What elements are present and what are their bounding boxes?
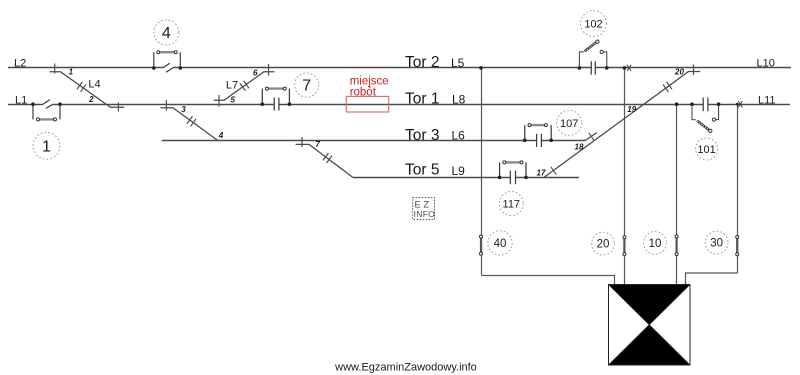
svg-text:20: 20 xyxy=(597,239,610,251)
svg-text:L2: L2 xyxy=(14,58,26,70)
svg-text:L6: L6 xyxy=(452,129,466,143)
svg-text:L1: L1 xyxy=(15,95,27,107)
svg-text:Tor 3: Tor 3 xyxy=(405,127,439,144)
svg-text:10: 10 xyxy=(649,238,662,250)
svg-text:30: 30 xyxy=(710,238,723,250)
svg-text:4: 4 xyxy=(218,131,224,140)
svg-text:3: 3 xyxy=(181,105,186,114)
svg-text:20: 20 xyxy=(674,67,684,76)
svg-text:Tor 2: Tor 2 xyxy=(405,54,439,71)
svg-text:102: 102 xyxy=(584,19,602,31)
svg-text:18: 18 xyxy=(575,143,584,152)
svg-text:L5: L5 xyxy=(451,56,465,70)
svg-text:40: 40 xyxy=(494,238,507,250)
svg-text:101: 101 xyxy=(697,144,715,156)
svg-text:L9: L9 xyxy=(452,164,466,178)
svg-text:17: 17 xyxy=(537,169,546,178)
svg-text:117: 117 xyxy=(503,199,521,211)
svg-text:www.EgzaminZawodowy.info: www.EgzaminZawodowy.info xyxy=(334,362,477,374)
svg-text:7: 7 xyxy=(302,78,311,95)
svg-text:19: 19 xyxy=(627,105,636,114)
svg-text:Tor 5: Tor 5 xyxy=(405,162,439,179)
svg-text:L11: L11 xyxy=(758,95,776,107)
svg-text:miejsce: miejsce xyxy=(350,75,389,87)
svg-text:L8: L8 xyxy=(452,93,466,107)
svg-text:107: 107 xyxy=(560,118,578,130)
svg-text:1: 1 xyxy=(42,139,51,156)
svg-text:L7: L7 xyxy=(226,80,238,92)
svg-text:7: 7 xyxy=(315,140,320,149)
svg-text:Tor 1: Tor 1 xyxy=(405,91,439,108)
svg-text:4: 4 xyxy=(162,25,171,42)
svg-text:L4: L4 xyxy=(88,79,100,91)
svg-text:5: 5 xyxy=(231,96,236,105)
svg-text:2: 2 xyxy=(88,95,94,104)
svg-text:INFO: INFO xyxy=(414,209,436,219)
svg-text:6: 6 xyxy=(253,69,258,78)
svg-text:1: 1 xyxy=(69,68,74,77)
svg-text:L10: L10 xyxy=(757,58,775,70)
